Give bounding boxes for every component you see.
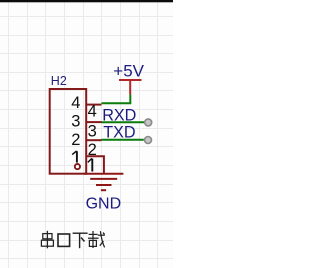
pin number 1 (outside): [88, 158, 93, 171]
caption 口: [58, 234, 70, 246]
pin 1 polarity marker circle: [75, 164, 80, 169]
pin 4 stub: [87, 104, 102, 106]
wire pin1 to ground (maroon): [86, 156, 104, 173]
no-connect node RXD (gray): [145, 119, 152, 126]
svg-text:2: 2: [71, 131, 80, 149]
caption 串: [41, 231, 53, 249]
svg-text:+5V: +5V: [113, 62, 144, 81]
caption 载: [88, 231, 105, 248]
schematic grid (decorative): [0, 0, 173, 268]
svg-text:RXD: RXD: [102, 107, 136, 125]
ground symbol bar 4: [101, 189, 106, 191]
+5V power bar symbol: [119, 79, 142, 81]
svg-text:H2: H2: [51, 74, 67, 88]
pin 2 stub: [87, 139, 102, 141]
wire TXD (green): [102, 139, 144, 141]
svg-text:TXD: TXD: [103, 124, 135, 142]
window edge bar (top): [0, 0, 173, 2]
connector H2 body: [50, 89, 86, 174]
caption 下: [73, 233, 88, 248]
ground symbol bar 3: [96, 184, 112, 186]
svg-text:3: 3: [71, 113, 80, 131]
svg-text:3: 3: [88, 122, 97, 140]
svg-text:4: 4: [88, 103, 97, 121]
ground symbol bar 1: [84, 173, 124, 175]
wire RXD (green): [102, 121, 145, 123]
pin name 1 (inside): [72, 151, 77, 163]
no-connect node TXD (gray): [145, 137, 152, 144]
power rail riser (red): [129, 81, 131, 94]
ground symbol bar 2: [90, 178, 117, 180]
svg-text:4: 4: [71, 94, 80, 112]
pin 3 stub: [87, 121, 102, 123]
wire pin4 to +5V (green segment): [102, 94, 131, 103]
svg-text:GND: GND: [86, 195, 122, 212]
